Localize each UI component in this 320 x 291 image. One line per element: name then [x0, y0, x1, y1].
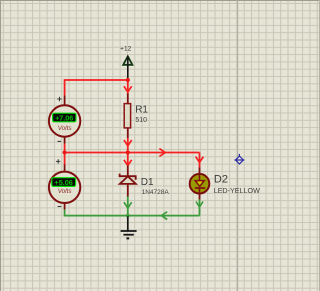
svg-text:R1: R1	[135, 104, 148, 115]
current arrow down above green rail (D2 branch)	[196, 202, 203, 207]
junction node A	[126, 78, 130, 82]
current arrow down above green rail (D1 branch)	[124, 202, 132, 208]
VM1 plus terminal label	[57, 97, 61, 101]
svg-text:Volts: Volts	[58, 188, 73, 195]
svg-text:+5.06: +5.06	[55, 178, 73, 187]
svg-text:LED-YELLOW: LED-YELLOW	[214, 186, 261, 195]
svg-text:D2: D2	[214, 174, 228, 186]
VM2 plus terminal label	[56, 159, 60, 163]
zener diode D1	[120, 166, 136, 197]
wire: VM1 minus to node B	[64, 144, 66, 153]
wire: node B horizontal (zener node) y=152.5	[65, 152, 200, 154]
current arrow down on D2 branch top	[196, 157, 204, 163]
wire: VM1 plus drop from node A	[64, 79, 66, 95]
svg-text:1N4728A: 1N4728A	[142, 189, 170, 196]
wire: VM2 minus to ground rail	[64, 209, 66, 217]
current arrow right on node B wire	[159, 149, 165, 157]
sheet border vertical line	[237, 0, 239, 291]
wire: R1 top red segment	[127, 80, 129, 94]
wire: D2 top red segment	[199, 153, 201, 168]
power symbol +12	[123, 56, 132, 80]
wire: VM2 plus from node B	[64, 153, 66, 165]
resistor R1	[124, 94, 130, 139]
svg-text:D1: D1	[141, 177, 154, 188]
svg-text:Volts: Volts	[58, 125, 73, 132]
junction node B at VM column	[63, 150, 67, 154]
current arrow down above node B (R1 bottom)	[124, 140, 132, 146]
wire: R1 bottom red segment	[127, 138, 129, 153]
wire: D1 bottom green segment	[127, 197, 129, 216]
LED D2	[190, 168, 210, 200]
origin marker (blue)	[234, 154, 244, 164]
wire: D2 bottom green segment	[199, 199, 201, 215]
junction node B at R1/D1 column	[126, 150, 130, 154]
ground	[121, 216, 137, 238]
current arrow down below node B (D1 branch)	[124, 160, 132, 166]
wire: D1 top red segment	[127, 153, 129, 166]
voltmeter VM1	[49, 96, 80, 144]
svg-text:+7.06: +7.06	[55, 113, 73, 122]
svg-text:510: 510	[135, 117, 147, 124]
wire: node A horizontal (+12 rail) y=80	[65, 79, 128, 81]
voltmeter VM2	[49, 165, 80, 210]
current arrow down below node A	[124, 86, 132, 92]
VM1 minus terminal label	[58, 140, 62, 142]
wire: ground rail green y=215.3	[65, 215, 200, 217]
junction ground rail	[126, 214, 130, 218]
svg-text:+12: +12	[120, 45, 131, 52]
current arrow left on green rail	[161, 212, 167, 220]
VM2 minus terminal label	[58, 206, 62, 208]
